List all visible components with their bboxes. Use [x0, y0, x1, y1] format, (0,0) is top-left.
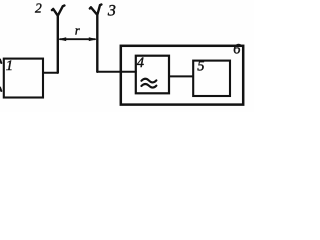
wire antenna3 to box4	[97, 71, 136, 73]
box 4	[136, 56, 169, 94]
svg-text:4: 4	[137, 55, 144, 71]
svg-text:6: 6	[233, 41, 241, 57]
AC symbol in box 4	[141, 79, 156, 88]
scan speck left upper	[0, 60, 1, 64]
svg-text:r: r	[75, 24, 80, 38]
wire box1 to antenna2	[43, 72, 57, 74]
svg-text:3: 3	[107, 3, 116, 20]
antenna 2	[52, 6, 65, 73]
wire box4 to box5	[169, 75, 193, 77]
scan speck left lower	[0, 88, 1, 92]
svg-text:1: 1	[6, 58, 13, 74]
svg-text:5: 5	[197, 59, 204, 75]
antenna 3	[90, 5, 102, 72]
svg-text:2: 2	[35, 0, 42, 15]
box 6	[121, 46, 243, 105]
box 5	[193, 61, 230, 96]
box 1	[4, 59, 43, 98]
dimension arrow r	[60, 38, 95, 40]
